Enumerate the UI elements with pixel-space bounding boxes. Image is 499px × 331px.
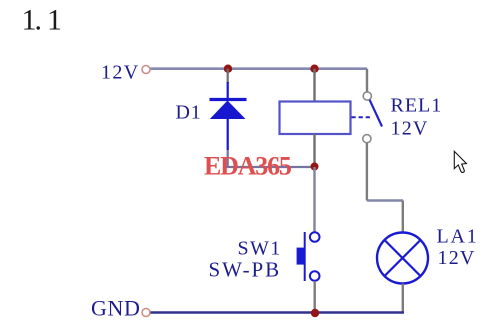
wire diode bottom stub: [227, 150, 229, 168]
wire node to switch SW1: [313, 167, 315, 233]
wire relay contact to lamp: horizontal: [367, 199, 403, 201]
wire ground rail: [151, 311, 405, 313]
wire diode to coil node: [227, 166, 315, 168]
diode D1: [210, 82, 247, 150]
relay coil REL1: [280, 102, 351, 135]
wire lamp bottom pin: [402, 284, 404, 313]
wire diode top stub: [227, 69, 229, 83]
svg-text:SW1: SW1: [238, 238, 282, 260]
svg-text:D1: D1: [176, 102, 202, 124]
wire relay coil bottom pin: [313, 134, 315, 167]
junction ground node: [311, 309, 319, 317]
mouse cursor: [454, 151, 466, 172]
wire relay contact to lamp: vertical: [366, 143, 368, 201]
relay linkage dashed line: [352, 116, 373, 118]
relay contact blade: [370, 100, 382, 127]
svg-text:.: .: [35, 4, 43, 37]
svg-text:REL1: REL1: [391, 95, 443, 117]
power terminal 12V: [142, 66, 150, 74]
relay contact top pin circle: [363, 92, 371, 100]
relay contact bottom pin circle: [363, 135, 371, 143]
svg-text:GND: GND: [91, 296, 140, 321]
wire relay coil top pin: [313, 69, 315, 102]
junction relay coil top node: [310, 65, 318, 73]
ground terminal GND: [142, 309, 150, 317]
wire corner to relay contact: [366, 69, 368, 92]
svg-text:12V: 12V: [391, 118, 429, 140]
heading 1.1: [22, 4, 63, 37]
switch SW1: [297, 232, 320, 281]
junction coil bottom node: [311, 163, 319, 171]
svg-text:SW-PB: SW-PB: [209, 258, 282, 282]
svg-text:12V: 12V: [438, 247, 476, 269]
svg-text:12V: 12V: [101, 62, 140, 84]
svg-text:1: 1: [47, 4, 62, 37]
junction diode top node: [224, 65, 232, 73]
wire switch bottom to ground rail: [314, 281, 316, 313]
svg-text:LA1: LA1: [437, 226, 479, 248]
wire lamp top pin: [402, 201, 404, 234]
svg-text:EDA365: EDA365: [204, 152, 292, 181]
wire top rail 12V: [151, 67, 368, 70]
lamp LA1: [377, 233, 428, 284]
